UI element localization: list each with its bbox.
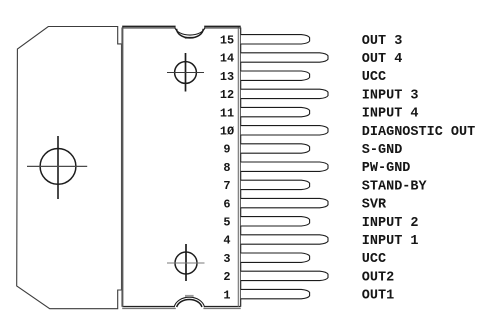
svg-text:INPUT 2: INPUT 2 [362, 216, 419, 231]
pin 15 lead [241, 35, 310, 44]
pin 3 lead [241, 253, 310, 262]
svg-text:1Ø: 1Ø [220, 125, 234, 139]
svg-text:INPUT 1: INPUT 1 [362, 234, 419, 249]
svg-text:STAND-BY: STAND-BY [362, 179, 428, 194]
svg-text:8: 8 [223, 161, 230, 175]
svg-text:1: 1 [223, 288, 230, 302]
svg-text:OUT 4: OUT 4 [362, 52, 403, 67]
svg-text:SVR: SVR [362, 198, 387, 213]
svg-text:UCC: UCC [362, 70, 386, 85]
svg-text:14: 14 [220, 52, 234, 66]
svg-text:INPUT 3: INPUT 3 [362, 88, 419, 103]
pin 5 lead [241, 217, 310, 226]
svg-text:OUT1: OUT1 [362, 289, 394, 304]
pin 1 lead [241, 289, 310, 298]
pin 9 lead [241, 144, 310, 153]
top alignment notch [175, 25, 205, 38]
svg-text:6: 6 [223, 197, 230, 211]
pin 7 lead [241, 180, 310, 189]
heatsink tab [17, 27, 122, 309]
svg-text:INPUT 4: INPUT 4 [362, 107, 419, 122]
svg-text:15: 15 [220, 34, 234, 48]
svg-text:7: 7 [223, 179, 230, 193]
svg-text:OUT 3: OUT 3 [362, 34, 403, 49]
tab mounting hole [27, 136, 87, 199]
pin 12 lead [241, 89, 328, 98]
svg-text:5: 5 [223, 216, 230, 230]
svg-text:PW-GND: PW-GND [362, 161, 411, 176]
svg-text:OUT2: OUT2 [362, 270, 394, 285]
body hole top [167, 53, 204, 92]
svg-text:12: 12 [220, 88, 234, 102]
svg-text:4: 4 [223, 234, 230, 248]
pin 2 lead [241, 271, 328, 280]
package body [122, 27, 241, 309]
pin 10 lead [241, 126, 328, 135]
pin 4 lead [241, 235, 328, 244]
body hole bottom [167, 244, 205, 281]
svg-text:DIAGNOSTIC OUT: DIAGNOSTIC OUT [362, 125, 475, 140]
pin 11 lead [241, 107, 310, 116]
svg-text:UCC: UCC [362, 252, 386, 267]
svg-text:9: 9 [223, 143, 230, 157]
svg-text:S-GND: S-GND [362, 143, 403, 158]
svg-text:13: 13 [220, 70, 234, 84]
bottom alignment notch [174, 296, 204, 310]
pin 6 lead [241, 198, 328, 207]
svg-text:2: 2 [223, 270, 230, 284]
pin 8 lead [241, 162, 328, 171]
pin 13 lead [241, 71, 310, 80]
svg-text:3: 3 [223, 252, 230, 266]
svg-text:11: 11 [220, 106, 234, 120]
pin 14 lead [241, 53, 328, 62]
